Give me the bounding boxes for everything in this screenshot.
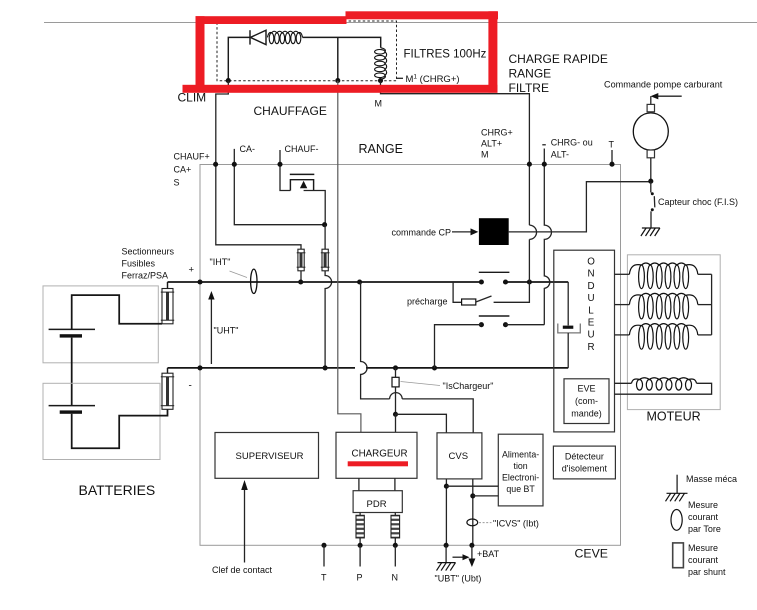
- wire: phase 1 lead from onduleur: [615, 273, 630, 275]
- svg-text:+: +: [189, 265, 195, 276]
- wire: CHARGEUR to PDR links: [358, 478, 360, 490]
- wire: precharge branch down from +HT: [453, 282, 462, 302]
- wire: CVS right output down: [472, 479, 474, 545]
- inductor motor rotor winding: [632, 378, 697, 390]
- contactor coil CP (black box): [479, 218, 509, 245]
- annotation red highlight rectangle (FILTRES): [183, 11, 499, 93]
- node terminal N: [393, 543, 398, 548]
- node CEVE enclosure box: [200, 165, 621, 546]
- svg-text:par shunt: par shunt: [688, 567, 726, 577]
- node CHAUF- terminal dot: [277, 162, 282, 167]
- svg-text:SUPERVISEUR: SUPERVISEUR: [236, 451, 304, 462]
- wire: fuses to CEVE border: [359, 538, 361, 545]
- contactor K1 main contact bar: [479, 271, 510, 273]
- svg-text:CVS: CVS: [449, 451, 469, 462]
- svg-text:CHAUF+: CHAUF+: [174, 152, 210, 162]
- label IsChargeur with leader: [401, 382, 441, 386]
- wire: F4 down, hop over +HT bus, to -HT bus: [325, 271, 332, 368]
- junction +HT / CHRG+ / precharge return: [527, 279, 532, 284]
- wire: junction to CVS: [396, 414, 447, 433]
- svg-text:+BAT: +BAT: [477, 549, 500, 559]
- diode D1 (cathode bar left, triangle): [250, 30, 266, 44]
- svg-text:T: T: [321, 573, 327, 583]
- node terminal P: [358, 543, 363, 548]
- junction F4 / -HT bus: [323, 365, 328, 370]
- battery B2 negative plate: [60, 410, 82, 413]
- svg-text:(com-: (com-: [575, 396, 598, 406]
- wire: hop of rail over IsChargeur wire: [390, 393, 403, 399]
- wire: PDR to fuses: [359, 513, 361, 516]
- annotation UHT measurement arrow: [210, 296, 212, 364]
- svg-text:FILTRE: FILTRE: [509, 81, 549, 95]
- junction F3 / +HT bus: [298, 279, 303, 284]
- contactor K1 contact terminals: [479, 279, 484, 284]
- svg-text:EVE: EVE: [577, 384, 595, 394]
- wire: phase 2 lead from onduleur: [615, 304, 630, 306]
- legend: Masse meca symbol: [676, 475, 678, 494]
- node CHRG- at CEVE border: [542, 162, 547, 167]
- annotation arrow Clef de contact: [244, 487, 246, 563]
- svg-text:Mesure: Mesure: [688, 500, 718, 510]
- svg-text:N: N: [392, 573, 399, 583]
- node CHAUF+ CA+ S terminal dot: [213, 162, 218, 167]
- junction pump / CP line / capteur choc: [648, 179, 653, 184]
- current sensor tore IHT on +HT bus: [251, 269, 257, 293]
- svg-text:d'isolement: d'isolement: [562, 464, 608, 474]
- battery B1 negative plate: [60, 334, 82, 337]
- wire: K2 left to -HT bus: [435, 325, 482, 368]
- svg-text:courant: courant: [688, 512, 719, 522]
- svg-text:que BT: que BT: [506, 484, 535, 494]
- wire: F2 to -HT bus: [167, 368, 169, 373]
- svg-text:CHAUFFAGE: CHAUFFAGE: [254, 104, 327, 118]
- ground (capteur choc): [642, 227, 660, 229]
- motor M pump body: [633, 113, 668, 150]
- wire: phase 2 to star point: [698, 304, 712, 306]
- wire: phase 1 to star point: [698, 273, 712, 275]
- motor M pump: top terminal: [647, 104, 654, 111]
- svg-text:U: U: [587, 293, 594, 304]
- svg-text:ALT-: ALT-: [551, 150, 569, 160]
- junction +HT / charger branch: [357, 279, 362, 284]
- box SUPERVISEUR: [215, 433, 319, 479]
- label minus tick for CHRG-: [542, 144, 546, 146]
- fuse F2 (battery - side): [162, 373, 173, 409]
- svg-text:CHARGE RAPIDE: CHARGE RAPIDE: [509, 52, 608, 66]
- wire: phase 3 to star point: [698, 334, 712, 336]
- svg-text:CA-: CA-: [240, 144, 256, 154]
- contactor K2 contact bar: [479, 315, 510, 317]
- wire M: filter tap down to CHARGEUR: [338, 81, 361, 433]
- wire: CA- lead: [234, 149, 324, 225]
- svg-text:Clef de contact: Clef de contact: [212, 565, 273, 575]
- svg-text:Masse méca: Masse méca: [686, 474, 737, 484]
- wire: M1(CHRG+) to CHRG+ terminal: [381, 81, 530, 226]
- contactor K2 terminals: [479, 322, 484, 327]
- current sensor tore ICVS: [467, 519, 478, 526]
- svg-text:CEVE: CEVE: [575, 547, 609, 561]
- node terminal T (bottom): [321, 543, 326, 548]
- svg-text:mande): mande): [571, 409, 602, 419]
- ground UBT: [438, 562, 456, 564]
- svg-text:précharge: précharge: [407, 297, 448, 307]
- motor M pump: bottom terminal: [647, 150, 654, 158]
- svg-text:"UHT": "UHT": [214, 326, 239, 336]
- svg-text:"IHT": "IHT": [210, 257, 231, 267]
- svg-text:FILTRES 100Hz: FILTRES 100Hz: [404, 49, 487, 61]
- box ONDULEUR: [554, 250, 615, 432]
- wire: CHRG+ down to +HT junction: [528, 239, 530, 282]
- wire: B1 to B2 series link: [71, 338, 73, 406]
- battery B1 positive plate: [49, 328, 95, 330]
- wire: precharge return to +HT junction: [494, 282, 530, 302]
- svg-text:Alimenta-: Alimenta-: [502, 450, 539, 460]
- wire: stub to M1 label: [397, 77, 404, 79]
- node +HT at CEVE border: [197, 279, 202, 284]
- wire: shunt down to junction: [395, 387, 397, 414]
- wire: to Alimentation BT (lower): [473, 495, 499, 497]
- box PDR: [353, 491, 402, 513]
- annotation red underline (CHARGEUR): [348, 461, 408, 466]
- inductor L2 (vertical coil in filter): [375, 48, 387, 80]
- wire: CHRG- stub down with hops over CP line and +HT bus: [544, 149, 551, 325]
- wire: horizontal gray hairline across top: [44, 22, 757, 24]
- svg-text:Capteur choc (F.I.S): Capteur choc (F.I.S): [658, 197, 738, 207]
- wire: filter top rail to vertical coil: [303, 37, 381, 47]
- wire: CHRG+ hop over commande CP line: [529, 225, 536, 239]
- wire: rotor return to onduleur: [615, 383, 712, 394]
- node battery pack 1 enclosure: [43, 286, 158, 363]
- svg-text:"UBT" (Ubt): "UBT" (Ubt): [435, 574, 482, 584]
- junction CVS-left / Alim feed: [444, 484, 449, 489]
- transistor Q1 channel: [290, 180, 313, 191]
- svg-text:courant: courant: [688, 555, 719, 565]
- wire: CLIM branch from filter to CHAUF+ rail: [216, 81, 301, 249]
- svg-text:PDR: PDR: [367, 499, 387, 510]
- svg-text:par Tore: par Tore: [688, 524, 721, 534]
- wire: +HT bus (contactor to onduleur): [506, 281, 569, 283]
- svg-text:tion: tion: [514, 461, 528, 471]
- node CA- terminal dot: [232, 162, 237, 167]
- svg-text:D: D: [587, 281, 594, 292]
- box Alimentation Electronique BT: [498, 434, 543, 506]
- node -HT at CEVE border: [197, 365, 202, 370]
- svg-text:S: S: [174, 178, 180, 188]
- annotation small right arrow: [453, 556, 465, 558]
- fuse F3 (CHAUF+ feed): [298, 249, 304, 271]
- junction shunt / CVS branch: [393, 412, 398, 417]
- inductor motor phase winding 3: [629, 324, 697, 350]
- box MOTEUR enclosure: [627, 255, 720, 410]
- wire: cap to -HT: [567, 333, 569, 368]
- inductor motor phase winding 2: [629, 293, 697, 319]
- svg-text:CHRG- ou: CHRG- ou: [551, 138, 593, 148]
- wire: filter left vertical: [228, 37, 250, 80]
- wire: F1 to +HT bus: [167, 282, 169, 289]
- junction CA- / Q1 drain: [322, 222, 327, 227]
- legend: tore symbol: [671, 510, 682, 531]
- wire: -HT bus: [168, 367, 569, 369]
- box Detecteur d isolement: [553, 446, 615, 479]
- svg-text:M: M: [375, 99, 383, 109]
- wire: CVS left output down: [445, 479, 447, 545]
- wire: +HT into onduleur to DC-link cap: [567, 282, 569, 325]
- wire: CP box to pump line: [509, 182, 651, 232]
- wire: junction down to fuse F4: [324, 225, 326, 250]
- svg-text:U: U: [587, 330, 594, 341]
- svg-text:-: -: [189, 381, 192, 392]
- label ICVS (Ibt) with dashed leader: [479, 522, 492, 524]
- inductor L1 (horizontal coil in filter): [268, 31, 303, 43]
- junction CVS-right / Alim feed: [470, 493, 475, 498]
- junction M1 (CHRG+): [378, 78, 383, 83]
- wire: UBT to ground: [445, 545, 447, 562]
- fuse F4 (CHAUF return): [322, 249, 328, 271]
- svg-text:ALT+: ALT+: [481, 139, 502, 149]
- transistor Q1 arrow: [300, 181, 307, 189]
- svg-text:commande CP: commande CP: [392, 228, 452, 238]
- node terminal T on CEVE top edge: [611, 150, 613, 164]
- capacitor C1 (DC link): top plate: [563, 326, 574, 329]
- svg-text:Fusibles: Fusibles: [122, 259, 156, 269]
- junction on filter bottom rail (left): [226, 78, 231, 83]
- transistor Q1 (MOSFET) gate bar: [290, 173, 315, 175]
- wire: +HT branch down, hop over -HT, to CHARGEUR/CVS rail: [361, 282, 474, 433]
- svg-text:Electroni-: Electroni-: [502, 473, 539, 483]
- inductor motor phase winding 1: [629, 263, 697, 289]
- node CHRG+ at CEVE border: [527, 162, 532, 167]
- wire: commande CP arrow: [452, 231, 472, 233]
- fuse F5 (phase P, striped): [356, 515, 364, 538]
- svg-text:Ferraz/PSA: Ferraz/PSA: [122, 271, 169, 281]
- svg-text:Mesure: Mesure: [688, 543, 718, 553]
- wire: phase 3 lead from onduleur: [615, 334, 630, 336]
- wire: fuse F3 to +HT bus: [300, 271, 302, 282]
- svg-text:BATTERIES: BATTERIES: [79, 482, 156, 498]
- capacitor C1: cup plate: [558, 324, 581, 333]
- svg-text:RANGE: RANGE: [359, 142, 403, 156]
- svg-text:"IsChargeur": "IsChargeur": [443, 381, 494, 391]
- node battery pack 2 enclosure: [43, 383, 160, 459]
- svg-text:MOTEUR: MOTEUR: [647, 410, 701, 424]
- svg-text:CHAUF-: CHAUF-: [285, 144, 319, 154]
- svg-text:E: E: [588, 318, 595, 329]
- svg-text:N: N: [587, 269, 594, 280]
- svg-text:O: O: [587, 257, 595, 268]
- svg-text:P: P: [357, 573, 363, 583]
- svg-text:Sectionneurs: Sectionneurs: [122, 247, 175, 257]
- svg-text:CHARGEUR: CHARGEUR: [352, 449, 408, 460]
- box CVS: [437, 433, 482, 479]
- svg-text:"ICVS" (Ibt): "ICVS" (Ibt): [493, 519, 539, 529]
- switch capteur choc (F.I.S): [650, 182, 652, 193]
- svg-text:CA+: CA+: [174, 165, 192, 175]
- wire: star point vertical: [711, 274, 713, 335]
- svg-text:CHRG+: CHRG+: [481, 128, 513, 138]
- wire: rotor winding lead: [615, 382, 632, 384]
- wire: Q1 drain rail to CA- node: [304, 191, 326, 225]
- fuse F6 (phase N, striped): [391, 515, 400, 538]
- node +BAT terminal: [469, 543, 474, 548]
- legend: shunt symbol: [673, 543, 684, 568]
- wire: filter mid vertical tap: [337, 37, 339, 80]
- wire: junction into CHARGEUR: [395, 414, 397, 432]
- wire: +HT bus (left section to contactor): [168, 281, 482, 283]
- svg-text:T: T: [609, 140, 615, 150]
- box CHARGEUR: [336, 432, 417, 478]
- wire: +BAT arrow down: [471, 545, 473, 560]
- junction -HT / shunt IsChargeur: [393, 365, 398, 370]
- fuse F1 (battery + side): [162, 289, 173, 324]
- svg-text:Détecteur: Détecteur: [565, 452, 604, 462]
- wire: K2 right to CHRG- line: [506, 324, 545, 326]
- wire: -HT to shunt: [395, 368, 397, 377]
- svg-text:M: M: [481, 150, 489, 160]
- shunt IsChargeur: [392, 377, 399, 387]
- wire: CHAUF- lead to transistor source: [280, 150, 290, 191]
- switch precharge blade: [476, 296, 492, 302]
- junction on filter bottom rail (mid): [335, 78, 340, 83]
- junction -HT / contactor 2 return: [432, 365, 437, 370]
- svg-text:RANGE: RANGE: [509, 67, 552, 81]
- annotation arrow into pump: [656, 95, 682, 97]
- wire: pump down to capteur node: [650, 158, 652, 182]
- battery B2 positive plate: [49, 405, 95, 407]
- box EVE (commande): [564, 379, 609, 424]
- node UBT terminal: [444, 543, 449, 548]
- svg-text:L: L: [588, 305, 594, 316]
- wire: B2 negative to fuse F2: [72, 409, 168, 448]
- svg-text:R: R: [587, 342, 594, 353]
- node FILTRES 100Hz dashed enclosure: [217, 21, 397, 81]
- wire: to Alimentation BT (upper): [446, 485, 498, 487]
- wire: B1 positive to fuse F1: [72, 295, 162, 329]
- svg-text:Commande pompe carburant: Commande pompe carburant: [604, 80, 723, 90]
- resistor R1 (precharge): [462, 299, 476, 305]
